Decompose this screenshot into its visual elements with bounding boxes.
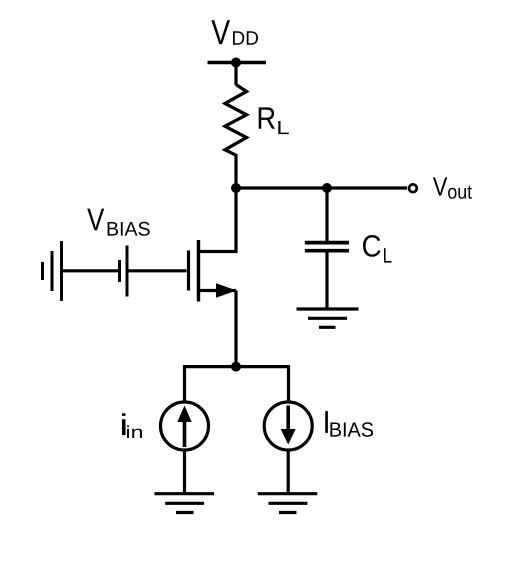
vout open terminal [409, 184, 417, 192]
label VDD [211, 20, 258, 45]
wire node to capacitor CL [325, 188, 328, 241]
wire output node to vout terminal [236, 186, 407, 189]
node dot tail [231, 362, 241, 372]
capacitor CL top plate [305, 241, 349, 245]
battery VBIAS short plate [118, 260, 121, 282]
label RL [259, 107, 289, 134]
ground under CL [297, 309, 359, 327]
nmos channel bar [197, 240, 200, 302]
resistor RL zigzag [225, 85, 247, 156]
current source IBIAS arrow [286, 406, 290, 431]
capacitor CL bottom plate [305, 249, 349, 253]
wire tail to IBIAS source [287, 365, 290, 403]
node dot at VDD [231, 58, 241, 68]
wire tail to iin source [183, 365, 186, 403]
label CL [363, 235, 391, 263]
wire VDD to resistor [234, 63, 237, 86]
nmos gate bar [187, 251, 190, 291]
label vout [433, 177, 472, 198]
ground under iin [155, 494, 215, 513]
nmos source arrow [216, 283, 237, 298]
current source IBIAS circle [264, 402, 312, 450]
wire source to tail node [234, 291, 237, 369]
wire ground to battery VBIAS [62, 269, 119, 272]
label VBIAS [87, 209, 150, 236]
label IBIAS [325, 411, 373, 437]
wire capacitor to ground [325, 252, 328, 309]
nmos drain lead [199, 188, 236, 252]
node dot drain/output [231, 183, 241, 193]
power supply VDD bar [208, 61, 267, 65]
label iin [122, 413, 142, 438]
wire iin source to ground [183, 450, 186, 494]
nmos source lead [199, 289, 236, 292]
sideways ground at VBIAS [43, 241, 62, 301]
current source iin circle [161, 402, 209, 450]
wire tail node horizontal [185, 365, 289, 368]
current source iin arrow [183, 421, 187, 447]
ground under IBIAS [258, 494, 318, 513]
battery VBIAS long plate [126, 246, 129, 297]
node dot at CL branch [322, 183, 332, 193]
wire IBIAS source to ground [287, 450, 290, 495]
wire resistor to output node [234, 154, 237, 190]
wire battery to gate [127, 269, 187, 272]
